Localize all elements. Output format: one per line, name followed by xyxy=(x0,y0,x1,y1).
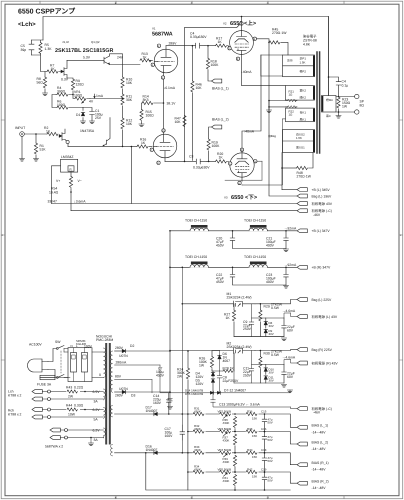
connector BIAS (L_2) xyxy=(297,442,307,446)
svg-text:50V: 50V xyxy=(268,459,273,463)
svg-text:C: C xyxy=(191,497,193,500)
wire mid vertical rails xyxy=(181,267,183,453)
svg-text:R40: R40 xyxy=(247,448,253,452)
pin circles row3 xyxy=(65,429,68,432)
wire V3 cathode stub xyxy=(241,177,243,181)
pin 10 of V1b xyxy=(162,129,165,132)
svg-text:C19: C19 xyxy=(261,467,267,471)
wire heater row2 xyxy=(42,410,103,418)
svg-text:-14~-48V: -14~-48V xyxy=(312,468,327,472)
diode D17 xyxy=(154,412,157,416)
svg-text:430K: 430K xyxy=(194,448,201,452)
zener D4 xyxy=(211,372,215,375)
svg-text:R43: R43 xyxy=(66,385,72,389)
resistor R42 15K xyxy=(246,470,259,475)
wire P1 P2 U link xyxy=(261,55,283,76)
svg-text:38.1V: 38.1V xyxy=(167,102,177,106)
connector heater V1 a xyxy=(50,428,60,432)
svg-text:C3: C3 xyxy=(189,155,193,159)
svg-text:青K1: 青K1 xyxy=(300,111,307,115)
svg-text:↑40mA: ↑40mA xyxy=(244,130,255,134)
svg-text:1N4007: 1N4007 xyxy=(146,448,158,452)
resistor R10 xyxy=(121,77,124,88)
svg-text:Bsg (L) 225V: Bsg (L) 225V xyxy=(312,298,333,302)
svg-text:C: C xyxy=(191,2,193,5)
resistor R48 xyxy=(282,167,297,169)
wire V1b cathode xyxy=(165,160,196,162)
tube V1b triode lower xyxy=(153,134,177,158)
svg-text:430K: 430K xyxy=(223,421,230,425)
svg-text:BIAS (L_2): BIAS (L_2) xyxy=(212,117,229,121)
svg-text:黄K2: 黄K2 xyxy=(300,89,307,93)
svg-text:→92mA: →92mA xyxy=(284,263,297,267)
svg-text:R28 1K: R28 1K xyxy=(223,367,235,371)
wire heater row1 xyxy=(42,392,103,400)
resistor R35 430K vertical xyxy=(233,417,236,428)
spark killer element 1 xyxy=(71,353,77,373)
svg-text:0.5W: 0.5W xyxy=(271,353,280,357)
svg-text:15K: 15K xyxy=(252,455,257,459)
svg-text:V3: V3 xyxy=(224,196,228,200)
connector heater L b xyxy=(32,397,42,401)
capacitor C23 xyxy=(285,267,287,269)
svg-text:C13 1000μF6.3V ← 3.6mA: C13 1000μF6.3V ← 3.6mA xyxy=(219,402,261,406)
svg-text:250V: 250V xyxy=(243,327,252,331)
resistor R19 xyxy=(208,151,210,161)
node R4 R9 junction xyxy=(72,94,74,96)
zener D8 xyxy=(264,321,268,324)
svg-text:280mA: 280mA xyxy=(116,361,127,365)
connector BIAS (R_2) xyxy=(297,481,307,485)
tube V3 6550 xyxy=(230,153,254,177)
svg-text:33//47: 33//47 xyxy=(48,200,58,204)
svg-text:15K: 15K xyxy=(252,416,257,420)
wire bias row 1 xyxy=(188,414,297,427)
wire Bsg rail vertical xyxy=(269,42,297,196)
svg-text:430K: 430K xyxy=(223,460,230,464)
wire K1 bottom to cathode V3 xyxy=(242,119,286,185)
svg-text:2SK3234 (2.4W): 2SK3234 (2.4W) xyxy=(227,296,252,300)
capacitor C16 47u 50V xyxy=(262,432,267,453)
wire bus drop to secondary xyxy=(328,17,330,96)
svg-text:VR5 50KB: VR5 50KB xyxy=(218,467,232,471)
svg-text:↓6.1mA: ↓6.1mA xyxy=(164,86,176,90)
potentiometer VR2 50KB xyxy=(219,412,232,417)
resistor R7 xyxy=(47,70,58,73)
svg-text:1W: 1W xyxy=(199,364,205,368)
pin 2 of V1a xyxy=(157,44,160,47)
svg-text:2W: 2W xyxy=(68,395,74,399)
resistor R2 xyxy=(47,132,58,135)
svg-text:TOEI CH-1150: TOEI CH-1150 xyxy=(185,255,207,259)
svg-text:0.33μ630V: 0.33μ630V xyxy=(193,166,210,170)
wire killer to PT xyxy=(64,349,104,378)
svg-text:V1: V1 xyxy=(152,27,156,31)
svg-text:R38: R38 xyxy=(247,427,253,431)
choke L2 xyxy=(249,226,268,231)
resistor R27 xyxy=(233,304,235,310)
capacitor C22 xyxy=(232,267,234,269)
wire R21 R22 to ground xyxy=(269,101,288,111)
svg-text:6550 CSPPアンプ: 6550 CSPPアンプ xyxy=(18,8,76,16)
svg-text:黒0: 黒0 xyxy=(326,114,331,118)
svg-text:4007: 4007 xyxy=(223,359,231,363)
svg-text:TOEI CH-1150: TOEI CH-1150 xyxy=(244,255,266,259)
svg-text:U07N: U07N xyxy=(119,354,128,358)
ground under R1 xyxy=(33,159,38,162)
pin 1 of V1a xyxy=(151,63,154,66)
pin 8 of V3 cathode xyxy=(238,181,241,184)
svg-text:D2: D2 xyxy=(130,344,134,348)
svg-text:1K: 1K xyxy=(226,316,231,320)
wire SG1 to B rail xyxy=(281,153,283,190)
terminal SP plus xyxy=(355,94,359,98)
svg-text:D: D xyxy=(267,2,269,5)
capacitor C12 xyxy=(282,365,287,384)
svg-text:400V: 400V xyxy=(266,280,275,284)
resistor R9 xyxy=(67,78,73,95)
capacitor C13 xyxy=(211,393,297,409)
resistor R36 15K xyxy=(246,412,259,417)
capacitor C8 xyxy=(217,371,222,393)
svg-text:-14~-48V: -14~-48V xyxy=(312,430,327,434)
svg-text:1K: 1K xyxy=(46,130,51,134)
svg-text:<Lch>: <Lch> xyxy=(18,21,36,28)
svg-text:430K: 430K xyxy=(194,409,201,413)
svg-text:2SK117BL 2SC1815GR: 2SK117BL 2SC1815GR xyxy=(55,48,113,54)
svg-text:R29: R29 xyxy=(264,305,270,309)
fuse F1 xyxy=(40,375,55,379)
wire M1 cell bottom xyxy=(234,313,297,337)
wire Q1 collector to 24V node xyxy=(110,54,123,77)
svg-text:400V: 400V xyxy=(266,244,275,248)
svg-text:25V: 25V xyxy=(95,116,102,120)
resistor R18 xyxy=(207,46,209,59)
switch SW poles xyxy=(56,348,58,350)
svg-text:1.5K: 1.5K xyxy=(296,136,302,140)
svg-text:SW: SW xyxy=(55,340,61,344)
svg-text:450V: 450V xyxy=(216,280,225,284)
wire V2 screen to Bsg rail xyxy=(257,39,270,43)
zener diode D1 1N4735A xyxy=(82,108,84,122)
svg-text:FUSE 3A: FUSE 3A xyxy=(37,383,52,387)
svg-text:15K: 15K xyxy=(252,434,257,438)
wire 43V sub rail xyxy=(115,413,188,415)
svg-text:10W: 10W xyxy=(68,413,76,417)
svg-text:4V: 4V xyxy=(89,100,94,104)
resistor R32 430K xyxy=(193,429,206,434)
wire HV center tap xyxy=(115,365,161,392)
wire speaker bottom xyxy=(336,111,355,113)
svg-text:430K: 430K xyxy=(194,467,201,471)
svg-text:100Ω: 100Ω xyxy=(146,114,155,118)
svg-text:160V: 160V xyxy=(165,434,174,438)
ground under D1 xyxy=(80,121,85,124)
svg-text:430K: 430K xyxy=(223,439,230,443)
connector heater V1 b xyxy=(50,436,60,440)
resistor R12 xyxy=(121,118,124,129)
zener D5 xyxy=(211,379,215,382)
diode D2 U07N xyxy=(115,350,123,352)
wire 80V tap xyxy=(115,380,153,393)
wire +B R rail xyxy=(170,266,297,268)
connector BIAS (L_1) xyxy=(297,425,307,429)
resistor R44 xyxy=(66,407,80,412)
wire M2 cell bottom xyxy=(252,360,298,365)
svg-text:430K: 430K xyxy=(223,479,230,483)
svg-text:15K: 15K xyxy=(252,474,257,478)
frame tick marks sides xyxy=(1,120,402,360)
svg-text:2: 2 xyxy=(400,234,402,237)
svg-text:450V: 450V xyxy=(216,244,225,248)
OPT secondary box 8ohm xyxy=(322,96,337,113)
svg-text:→4.6mA: →4.6mA xyxy=(282,309,296,313)
PT aux winding B xyxy=(111,406,113,417)
svg-text:R42: R42 xyxy=(247,467,253,471)
pin 7 of V3 xyxy=(240,148,243,151)
svg-text:6.2V: 6.2V xyxy=(93,408,101,412)
svg-text:初段電源 43V: 初段電源 43V xyxy=(312,202,333,206)
svg-text:Q1,Q2: Q1,Q2 xyxy=(91,40,100,44)
pin 3 of V1a xyxy=(161,76,164,79)
capacitor C4b damper xyxy=(329,77,341,97)
svg-text:↓40mA: ↓40mA xyxy=(241,70,252,74)
svg-text:初段電源 (R) 43V: 初段電源 (R) 43V xyxy=(312,361,339,365)
zener D11 xyxy=(264,376,268,379)
svg-text:3A: 3A xyxy=(94,438,99,442)
pin circle J2 source xyxy=(66,140,69,143)
svg-text:51K: 51K xyxy=(40,148,47,152)
svg-text:4.8K: 4.8K xyxy=(303,43,311,47)
ground under C1 xyxy=(89,121,94,124)
svg-text:30V: 30V xyxy=(269,332,274,336)
node C3 right junction xyxy=(208,161,210,163)
PT heater winding 1 xyxy=(104,389,106,400)
svg-text:1K: 1K xyxy=(143,56,148,60)
capacitor C1 xyxy=(83,108,94,122)
wire M2 source to Bsg R xyxy=(255,349,297,352)
svg-text:1K: 1K xyxy=(219,156,224,160)
AC plug xyxy=(28,359,42,372)
potentiometer VR4 50KB xyxy=(219,450,232,455)
PT primary winding xyxy=(104,348,106,377)
spark killer element 2 xyxy=(82,353,88,373)
svg-text:3A: 3A xyxy=(94,400,99,404)
svg-text:100K: 100K xyxy=(212,144,221,148)
svg-text:430K: 430K xyxy=(194,427,201,431)
connector heater R a xyxy=(32,408,42,412)
wire speaker top xyxy=(336,96,355,98)
svg-text:黒SG1: 黒SG1 xyxy=(296,146,305,150)
connector shodan -C xyxy=(297,209,307,213)
svg-text:100Ω: 100Ω xyxy=(57,103,66,107)
svg-text:6550 <下>: 6550 <下> xyxy=(231,194,258,201)
svg-text:0: 0 xyxy=(99,373,101,377)
svg-text:D1: D1 xyxy=(76,113,80,117)
svg-text:6.5V: 6.5V xyxy=(93,390,101,394)
frame tick marks bottom xyxy=(116,496,344,499)
zener D10 xyxy=(264,368,268,371)
zener D9 xyxy=(264,329,268,332)
wire plate rail V2 lower xyxy=(185,25,240,162)
wire V1b plate to V1a cathode xyxy=(163,103,165,129)
ground speaker return xyxy=(338,112,340,116)
svg-text:100Ω: 100Ω xyxy=(74,94,83,98)
svg-text:C16: C16 xyxy=(261,427,267,431)
svg-text:24V: 24V xyxy=(117,56,124,60)
wire J1 drain to Q1 base xyxy=(67,59,104,61)
choke L3 xyxy=(190,263,209,268)
svg-text:160V: 160V xyxy=(153,401,162,405)
resistor R40 15K xyxy=(246,450,259,455)
resistor R45 xyxy=(268,42,270,44)
OPT core xyxy=(317,52,320,153)
connector BIAS L1 xyxy=(212,79,222,83)
svg-text:+B (R) 347V: +B (R) 347V xyxy=(312,266,331,270)
wire V3 plate up xyxy=(242,55,261,153)
svg-text:R: R xyxy=(70,167,72,171)
wire B+ feed vertical xyxy=(169,231,171,351)
svg-text:黒K1: 黒K1 xyxy=(300,117,307,121)
resistor R23 xyxy=(338,96,340,98)
wire Q1 emitter to R13 xyxy=(110,64,141,66)
choke L4 xyxy=(249,263,268,268)
connector Bsg L 196V xyxy=(297,194,307,198)
svg-text:TOEI CH-1150: TOEI CH-1150 xyxy=(185,219,207,223)
svg-text:2: 2 xyxy=(2,234,4,237)
resistor R39 430K vertical xyxy=(233,455,236,466)
svg-text:3K3: 3K3 xyxy=(143,98,149,102)
svg-text:J1,J2: J1,J2 xyxy=(62,40,69,44)
wire bias row 4 xyxy=(188,472,297,483)
svg-text:0.1μ: 0.1μ xyxy=(342,83,349,87)
resistor R8 xyxy=(44,72,46,94)
wire bias left rail xyxy=(187,414,189,490)
resistor R38 15K xyxy=(246,429,259,434)
svg-text:D15 1N4007B: D15 1N4007B xyxy=(185,392,203,396)
OPT winding K1 box xyxy=(286,108,315,122)
MOSFET M1 xyxy=(182,301,255,307)
frame tick marks top xyxy=(40,1,344,4)
wire aux tap to D16 xyxy=(115,452,188,454)
pin 5 of V2 grid xyxy=(228,47,231,50)
capacitor C9 xyxy=(249,304,254,337)
svg-text:30V: 30V xyxy=(269,379,274,383)
svg-text:R44: R44 xyxy=(66,403,72,407)
svg-text:初段電源 (L) 43V: 初段電源 (L) 43V xyxy=(312,315,338,319)
svg-text:280V: 280V xyxy=(115,394,124,398)
svg-text:5A: 5A xyxy=(94,418,99,422)
potentiometer VR5 50KB xyxy=(219,470,232,475)
resistor R46 xyxy=(191,46,193,81)
svg-text:10K: 10K xyxy=(196,86,203,90)
resistor R54 xyxy=(70,172,72,176)
resistor R14 xyxy=(142,101,153,104)
resistor R22 xyxy=(288,106,297,109)
svg-text:60V: 60V xyxy=(287,329,294,333)
wire J2 source to Q2 xyxy=(67,144,69,147)
wire V3 screen to box xyxy=(225,161,262,180)
svg-text:+B (L) 345V: +B (L) 345V xyxy=(312,188,331,192)
tube V1a triode upper xyxy=(154,49,178,73)
svg-text:1K: 1K xyxy=(51,67,56,71)
svg-text:BIAS (R_2): BIAS (R_2) xyxy=(312,480,329,484)
wire LM334 V+ lead xyxy=(52,166,61,204)
resistor R47 xyxy=(183,116,186,127)
resistor R4 xyxy=(56,94,73,96)
connector shodan 43V xyxy=(297,202,307,206)
svg-text:自Bsg: 自Bsg xyxy=(268,134,276,138)
svg-text:BIAS (L_1): BIAS (L_1) xyxy=(312,424,329,428)
svg-text:U07N: U07N xyxy=(119,387,128,391)
PT HV winding xyxy=(110,351,112,393)
node input top bus wire xyxy=(43,17,329,41)
svg-text:0.22Ω: 0.22Ω xyxy=(74,385,84,389)
wire +B345 rail xyxy=(282,189,297,191)
wire J2 to R16 xyxy=(68,145,137,147)
svg-text:270Ω·1W: 270Ω·1W xyxy=(297,175,312,179)
resistor R24 xyxy=(187,351,189,368)
svg-text:D7-12 1N4007: D7-12 1N4007 xyxy=(224,388,246,392)
resistor R29 xyxy=(260,303,262,305)
svg-text:50V: 50V xyxy=(268,478,273,482)
svg-text:0.33μ630V: 0.33μ630V xyxy=(190,35,207,39)
connector +B L 345V xyxy=(297,188,307,192)
resistor R5 xyxy=(32,40,44,55)
svg-text:N: N xyxy=(71,344,73,348)
transistor Q2 2SC1815 xyxy=(103,118,110,147)
wire M1 source to Bsg L xyxy=(255,300,297,304)
svg-text:390Ω: 390Ω xyxy=(57,90,66,94)
svg-text:30K: 30K xyxy=(126,98,133,102)
svg-text:B: B xyxy=(115,497,117,500)
svg-text:100V: 100V xyxy=(84,344,93,348)
capacitor C4 coupling xyxy=(192,43,205,48)
OPT primary P1 P2 box xyxy=(283,55,315,77)
ground heater center tap xyxy=(90,438,92,444)
pin 4 of V2 screen xyxy=(253,37,256,40)
resistor R28 xyxy=(212,370,223,372)
svg-text:120Ω: 120Ω xyxy=(76,83,85,87)
resistor R43 xyxy=(66,389,80,394)
svg-text:+B (L) 347V: +B (L) 347V xyxy=(312,229,331,233)
svg-text:450V: 450V xyxy=(156,374,165,378)
svg-text:V−: V− xyxy=(78,179,82,183)
ground under R15 xyxy=(139,124,144,127)
svg-text:0.5W: 0.5W xyxy=(271,306,280,310)
svg-text:V+: V+ xyxy=(56,179,60,183)
potentiometer VR1 xyxy=(73,95,75,99)
spark killer box xyxy=(68,348,92,382)
capacitor C20 xyxy=(232,230,234,232)
connector minus C out xyxy=(297,407,307,411)
pin 7 of V2 xyxy=(240,22,243,25)
wire V1a plate xyxy=(166,45,192,47)
wire input to R2 xyxy=(24,133,47,135)
svg-text:39p: 39p xyxy=(21,48,27,52)
svg-text:-14~-48V: -14~-48V xyxy=(312,486,327,490)
svg-text:PMC-283M: PMC-283M xyxy=(96,338,113,342)
wire minus C feed xyxy=(160,393,290,414)
svg-text:19.4Ω: 19.4Ω xyxy=(49,190,59,194)
diode chain D7-12 xyxy=(210,391,213,394)
transistor Q1 2SC1815 xyxy=(104,56,110,65)
svg-text:5687WAｘ2: 5687WAｘ2 xyxy=(45,445,63,449)
svg-text:KT88ｘ2: KT88ｘ2 xyxy=(8,393,21,397)
svg-text:KT88ｘ2: KT88ｘ2 xyxy=(8,412,21,416)
resistor R31 430K xyxy=(193,412,206,417)
resistor R15 xyxy=(140,109,143,120)
